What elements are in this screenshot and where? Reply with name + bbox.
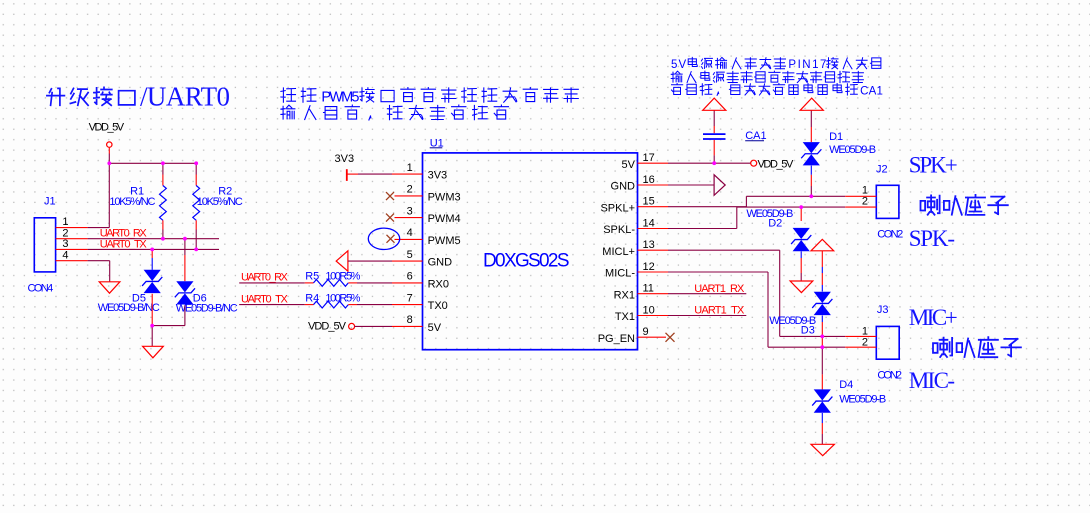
title text 升级接口/UART0 bbox=[47, 81, 230, 111]
svg-text:2: 2 bbox=[407, 184, 413, 196]
U1 pin 1 3V3 bbox=[392, 162, 447, 182]
svg-text:VDD_5V: VDD_5V bbox=[308, 320, 347, 332]
svg-text:PWM5: PWM5 bbox=[321, 89, 359, 105]
diode D5 bbox=[151, 249, 153, 269]
wire UART0_TX bbox=[88, 248, 219, 250]
U1 pin 9 PG_EN bbox=[598, 326, 666, 345]
op-amp U1 body bbox=[423, 153, 638, 350]
svg-text:VDD_5V: VDD_5V bbox=[758, 158, 794, 170]
svg-text:PWM3: PWM3 bbox=[428, 192, 461, 204]
annotation text PWM5 note line1 bbox=[281, 88, 578, 106]
power VDD_5V (pin17) bbox=[751, 158, 794, 170]
svg-text:100R5%: 100R5% bbox=[325, 271, 360, 283]
svg-text:13: 13 bbox=[643, 239, 655, 251]
resistor R4 bbox=[314, 301, 393, 308]
wire pullup rail bbox=[109, 162, 196, 164]
svg-text:12: 12 bbox=[643, 261, 655, 273]
svg-text:GND: GND bbox=[428, 257, 453, 269]
wire D5-D6 common bbox=[152, 294, 185, 347]
svg-text:5V: 5V bbox=[671, 59, 687, 71]
svg-text:14: 14 bbox=[643, 217, 655, 229]
wire VDD stem to rail bbox=[108, 154, 110, 164]
svg-text:100R5%: 100R5% bbox=[325, 293, 360, 305]
wire UART0_TX to R4 bbox=[239, 304, 313, 306]
svg-text:CA1: CA1 bbox=[860, 85, 883, 97]
no-connect X pin9 bbox=[666, 333, 675, 342]
resistor R1 bbox=[159, 163, 166, 238]
power VDD_5V (J1 pullup) bbox=[89, 122, 125, 154]
svg-text:CON2: CON2 bbox=[877, 229, 903, 241]
svg-text:15: 15 bbox=[643, 196, 655, 208]
svg-text:CON4: CON4 bbox=[28, 282, 54, 294]
annotation text 5V power note line3 bbox=[672, 84, 883, 98]
svg-text:D4: D4 bbox=[839, 379, 853, 391]
annotation text 5V power note line2 bbox=[671, 71, 863, 83]
svg-text:PG_EN: PG_EN bbox=[598, 333, 635, 345]
no-connect X pin4 with ellipse bbox=[368, 228, 399, 249]
no-connect X pin3 bbox=[386, 214, 394, 222]
U1 pin 8 5V bbox=[392, 314, 442, 334]
svg-text:2: 2 bbox=[862, 336, 868, 348]
J1 pin 2 bbox=[56, 227, 88, 239]
svg-text:TX0: TX0 bbox=[428, 300, 448, 312]
svg-text:TX1: TX1 bbox=[615, 311, 635, 323]
svg-text:/UART0: /UART0 bbox=[140, 81, 230, 111]
diode D4 bbox=[821, 374, 823, 444]
U1 pin 5 GND bbox=[392, 249, 452, 269]
svg-text:J1: J1 bbox=[44, 195, 56, 207]
svg-text:5V: 5V bbox=[622, 159, 636, 171]
svg-text:UART1_TX: UART1_TX bbox=[694, 305, 745, 317]
wire pin16 GND bbox=[668, 184, 714, 186]
svg-text:9: 9 bbox=[643, 326, 649, 338]
svg-text:8: 8 bbox=[407, 314, 413, 326]
wire VDD vertical to J1 pin1 bbox=[108, 163, 110, 227]
svg-text:VDD_5V: VDD_5V bbox=[89, 122, 125, 134]
svg-text:UART0_RX: UART0_RX bbox=[241, 272, 289, 284]
svg-text:MICL-: MICL- bbox=[605, 268, 635, 280]
svg-text:R4: R4 bbox=[305, 293, 319, 305]
wire 3V3 to pin1 bbox=[358, 173, 392, 175]
power 3V3 stub bbox=[335, 153, 359, 181]
svg-text:3: 3 bbox=[407, 205, 413, 217]
svg-text:MICL+: MICL+ bbox=[602, 246, 635, 258]
svg-text:MIC-: MIC- bbox=[909, 368, 955, 393]
wire SPKL+ to J2 pin1 bbox=[668, 196, 845, 206]
U1 pin 15 SPKL+ bbox=[600, 196, 668, 215]
svg-text:4: 4 bbox=[62, 249, 68, 261]
U1 pin 3 PWM4 bbox=[395, 205, 461, 225]
J1 pin 3 bbox=[56, 238, 88, 250]
ground (D5 D6) bbox=[143, 346, 164, 358]
svg-text:J3: J3 bbox=[877, 304, 889, 316]
ground arrow (U1 pin5 GND) bbox=[336, 251, 392, 271]
U1 pin 17 5V bbox=[622, 152, 668, 171]
resistor R5 bbox=[314, 280, 393, 287]
diode D3 bbox=[821, 251, 823, 347]
annotation text 5V power note line1 bbox=[671, 57, 881, 71]
svg-text:2: 2 bbox=[862, 195, 868, 207]
wire UART1_TX stub bbox=[668, 315, 746, 317]
wire UART0_RX bbox=[88, 238, 219, 240]
svg-text:UART0_TX: UART0_TX bbox=[241, 294, 289, 306]
wire UART1_RX stub bbox=[668, 293, 746, 295]
svg-text:SPKL-: SPKL- bbox=[603, 224, 635, 236]
diode D1 body bbox=[803, 142, 820, 153]
J1 pin 4 bbox=[56, 249, 88, 261]
connector J2 bbox=[876, 185, 899, 218]
capacitor CA1 bbox=[703, 110, 726, 163]
wire SPKL- to J2 pin2 bbox=[668, 207, 845, 228]
J2 pin 1 bbox=[845, 184, 876, 196]
U1 pin 12 MICL- bbox=[605, 261, 668, 280]
text 喇叭座子 (J3) bbox=[933, 337, 1021, 357]
svg-text:7: 7 bbox=[407, 292, 413, 304]
U1 pin 16 GND bbox=[611, 174, 668, 193]
U1 pin 7 TX0 bbox=[392, 292, 448, 312]
svg-text:6: 6 bbox=[407, 271, 413, 283]
svg-text:PWM4: PWM4 bbox=[428, 213, 461, 225]
U1 pin 6 RX0 bbox=[392, 271, 449, 291]
svg-text:16: 16 bbox=[643, 174, 655, 186]
svg-text:D1: D1 bbox=[829, 131, 843, 143]
svg-text:PIN17: PIN17 bbox=[788, 59, 826, 71]
svg-text:17: 17 bbox=[643, 152, 655, 164]
label CA1 bbox=[745, 130, 766, 142]
svg-text:3: 3 bbox=[62, 238, 68, 250]
svg-text:SPK-: SPK- bbox=[909, 226, 955, 251]
svg-text:4: 4 bbox=[407, 227, 413, 239]
connector J1 bbox=[34, 218, 55, 272]
svg-text:SPKL+: SPKL+ bbox=[600, 202, 635, 214]
wire J3 pin2 to D4 bbox=[821, 347, 823, 374]
svg-text:3V3: 3V3 bbox=[335, 153, 355, 165]
diode D6 bbox=[184, 239, 186, 282]
U1 pin 10 TX1 bbox=[615, 304, 668, 323]
power arrow (D3 rail) bbox=[811, 239, 834, 251]
svg-text:10K5%/NC: 10K5%/NC bbox=[197, 196, 243, 208]
wire J1 pin4 to ground bbox=[88, 261, 110, 282]
J3 pin 1 bbox=[845, 325, 876, 337]
U1 pin 14 SPKL- bbox=[603, 217, 668, 236]
svg-text:1: 1 bbox=[407, 162, 413, 174]
svg-text:D3: D3 bbox=[801, 325, 815, 337]
U1 pin 4 PWM5 bbox=[395, 227, 461, 247]
connector J3 bbox=[876, 326, 899, 359]
svg-text:WE05D9-B: WE05D9-B bbox=[829, 144, 876, 156]
junction dots bbox=[107, 161, 824, 349]
resistor R2 bbox=[193, 163, 200, 249]
svg-text:MIC+: MIC+ bbox=[909, 305, 958, 330]
power arrow (D1 5V) bbox=[800, 98, 823, 110]
ground arrow (U1 pin16 GND) bbox=[714, 175, 725, 196]
diode D2 bbox=[800, 207, 802, 281]
svg-text:5: 5 bbox=[407, 249, 413, 261]
svg-text:CON2: CON2 bbox=[877, 369, 902, 381]
diode D2 body bbox=[793, 228, 810, 239]
U1 pin 13 MICL+ bbox=[602, 239, 668, 258]
J1 pin 1 bbox=[56, 216, 88, 228]
svg-text:D0XGS02S: D0XGS02S bbox=[483, 250, 570, 271]
svg-text:PWM5: PWM5 bbox=[428, 235, 461, 247]
svg-text:GND: GND bbox=[611, 181, 636, 193]
svg-text:CA1: CA1 bbox=[745, 130, 766, 142]
ground (J1) bbox=[99, 282, 120, 293]
diode D6 body bbox=[176, 281, 193, 292]
wire UART0_RX to R5 bbox=[239, 282, 313, 284]
diode D1 bbox=[810, 110, 812, 196]
wire J1 pin1 horizontal bbox=[88, 227, 110, 229]
J3 pin 2 bbox=[845, 336, 876, 348]
wire pin17 5V bbox=[668, 162, 751, 164]
svg-text:UART0_TX: UART0_TX bbox=[100, 238, 148, 250]
annotation text PWM5 note line2 bbox=[281, 105, 509, 120]
svg-text:RX0: RX0 bbox=[428, 279, 449, 291]
svg-text:J2: J2 bbox=[876, 164, 888, 176]
ground (D4) bbox=[811, 444, 834, 455]
no-connect X pin2 bbox=[386, 192, 394, 200]
text 喇叭座子 (J2) bbox=[921, 195, 1008, 215]
svg-text:11: 11 bbox=[643, 283, 654, 295]
diode D4 body bbox=[814, 389, 831, 400]
svg-text:D2: D2 bbox=[768, 218, 782, 230]
svg-text:SPK+: SPK+ bbox=[909, 152, 958, 177]
svg-text:10K5%/NC: 10K5%/NC bbox=[109, 196, 155, 208]
U1 pin 11 RX1 bbox=[614, 283, 668, 302]
svg-text:WE05D9-B/NC: WE05D9-B/NC bbox=[98, 302, 160, 314]
ground (D2) bbox=[790, 281, 813, 293]
svg-text:10: 10 bbox=[643, 304, 655, 316]
svg-text:RX1: RX1 bbox=[614, 289, 635, 301]
J2 pin 2 bbox=[845, 195, 876, 207]
svg-text:WE05D9-B: WE05D9-B bbox=[839, 393, 886, 405]
label U1 bbox=[430, 137, 444, 149]
diode D3 body bbox=[814, 292, 831, 303]
wire MICL- to J3 pin2 bbox=[668, 272, 845, 347]
svg-text:3V3: 3V3 bbox=[428, 170, 448, 182]
power VDD_5V (U1 pin8) bbox=[308, 320, 392, 332]
wire MICL+ to J3 pin1 bbox=[668, 250, 845, 336]
svg-text:R5: R5 bbox=[305, 271, 319, 283]
power arrow (CA1 5V) bbox=[703, 98, 726, 110]
svg-text:5V: 5V bbox=[428, 322, 442, 334]
diode D5 body bbox=[144, 270, 161, 281]
U1 pin 2 PWM3 bbox=[395, 184, 461, 204]
